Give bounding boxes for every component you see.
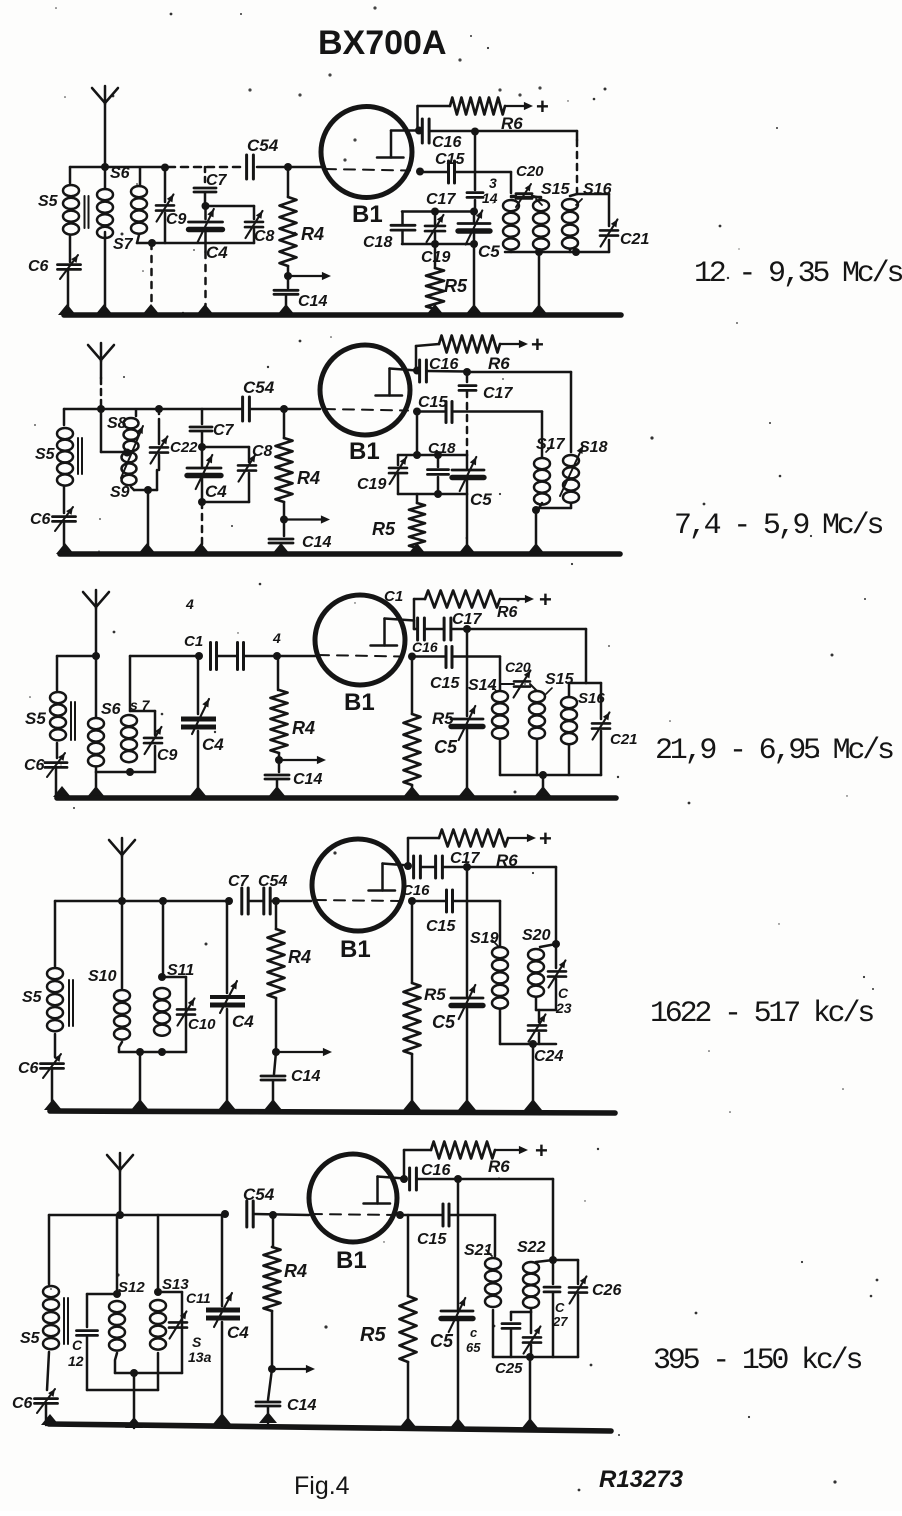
capacitor C16 (section 2) [420,356,459,382]
svg-text:C10: C10 [188,1016,216,1033]
capacitor C9 (section 3) [130,711,178,772]
wire [585,629,588,683]
ground [449,1418,467,1429]
wire [67,270,70,313]
coil S16 [562,181,612,249]
svg-text:S19: S19 [470,930,499,947]
wire [555,867,558,943]
svg-text:C: C [555,1300,565,1315]
svg-text:C7: C7 [206,172,228,189]
ground [408,543,426,554]
junction [413,408,421,416]
label 1622 - 517 kc/s [650,997,873,1031]
wire [101,409,126,452]
wire [427,370,467,373]
wire (plate lead) [385,619,415,630]
wire (to +) [500,595,534,603]
junction [284,163,292,171]
wire (cluster top rail) [398,454,467,457]
capacitor C7 [194,167,228,205]
junction [549,1256,557,1264]
junction [280,516,288,524]
svg-text:R4: R4 [297,468,320,488]
wire [418,106,451,131]
resistor R4 (section 2) [276,409,321,519]
svg-text:C16: C16 [412,639,438,655]
svg-text:C5: C5 [470,490,492,509]
svg-text:C21: C21 [610,731,638,748]
capacitor C14 (section 4) [261,1052,320,1110]
capacitor C15 (section 5) [417,1204,449,1248]
stray mark 4 [185,596,194,612]
capacitor C6 (section 3) [24,753,67,777]
label S13a [188,1334,212,1365]
junction [275,756,283,764]
wire (AVC arrow) [288,272,331,280]
svg-text:C17: C17 [483,385,513,402]
junction [123,449,131,457]
wire [467,372,571,452]
coil S22 [517,1239,553,1308]
junction [431,208,439,216]
capacitor C4 (section 3) [181,656,224,754]
svg-text:C19: C19 [357,476,386,493]
ground [131,1099,149,1110]
svg-text:C54: C54 [243,1185,275,1204]
svg-text:R5: R5 [360,1324,386,1346]
label Fig.4 [294,1472,350,1500]
coil S5 (section 5) [20,1215,59,1390]
junction [434,451,442,459]
antenna (section 1) [92,86,118,167]
wire [139,1052,142,1110]
svg-text:C15: C15 [430,675,460,692]
svg-text:BX700A: BX700A [318,24,447,62]
svg-text:S15: S15 [541,181,571,198]
svg-text:S5: S5 [20,1330,41,1347]
wire [63,522,66,553]
junction [463,863,471,871]
wire [414,901,500,946]
capacitor C10 [177,998,216,1033]
ground [268,786,286,797]
capacitor C54 [247,136,279,179]
coil S7 (section 3) [121,656,155,762]
capacitor C20 [511,163,544,207]
capacitor C21 (section 3) [592,712,638,748]
svg-text:C22: C22 [170,439,198,456]
wire (to +) [500,340,528,348]
capacitor C15 (section 3) [430,647,460,693]
wire [414,657,500,691]
junction [284,272,292,280]
ground [458,786,476,797]
capacitor C8 [245,206,275,245]
wire [466,494,469,552]
wire [577,194,609,226]
svg-text:C24: C24 [534,1048,563,1065]
svg-text:R6: R6 [488,354,510,373]
wire [536,503,571,510]
svg-text:S6: S6 [101,701,121,718]
capacitor C16 (section 3) [412,618,438,655]
wire [51,1069,54,1110]
capacitor C21 [600,219,649,248]
svg-text:R5: R5 [444,276,468,296]
capacitor C27 [544,1260,568,1357]
wire (tank bottom rail) [505,250,609,252]
ground [87,786,105,797]
svg-text:C15: C15 [418,394,448,411]
junction [92,652,100,660]
coil S6 [97,165,130,238]
capacitor C9 [156,168,187,244]
junction [431,240,439,248]
antenna (section 5) [107,1153,133,1215]
svg-text:12: 12 [68,1353,84,1369]
wire [466,391,469,455]
capacitor C14 (section 2) [269,520,331,554]
svg-text:C6: C6 [30,511,51,528]
coil S9 [110,452,137,501]
svg-text:C4: C4 [202,735,224,754]
wire [254,1214,309,1215]
wire [404,1150,431,1179]
capacitor C17 (section 3) [425,611,482,640]
svg-text:C5: C5 [434,737,458,757]
capacitor C16 (section 5) [410,1162,451,1190]
wire [104,232,107,313]
label 21,9 - 6,95 Mc/s [655,734,893,768]
wire (tank bottom rail) [500,1010,556,1044]
capacitor C4 (section 2) [187,447,227,502]
capacitor C11 [169,1290,211,1339]
svg-text:R4: R4 [301,224,324,244]
svg-text:S12: S12 [118,1279,145,1296]
svg-text:C14: C14 [298,293,327,310]
wire (plate lead) [390,369,418,371]
wire [542,775,545,797]
ground [213,1413,231,1424]
junction [101,163,109,171]
junction [572,248,580,256]
wire (to +) [505,102,533,110]
svg-text:R6: R6 [497,604,518,621]
junction [404,862,412,870]
capacitor C19 [421,212,450,267]
svg-text:B1: B1 [336,1247,367,1274]
junction [272,897,280,905]
wire [70,166,166,169]
wire (plate lead) [378,1177,405,1179]
wire [64,408,159,411]
svg-text:R4: R4 [292,718,315,738]
svg-text:S: S [192,1334,202,1350]
junction [413,367,421,375]
junction [113,1290,121,1298]
resistor R6 (section 3) [414,591,518,630]
ground [399,1417,417,1428]
capacitor C20 (section 3) [505,659,531,698]
svg-text:4: 4 [272,630,281,646]
svg-text:C17: C17 [426,191,456,208]
svg-text:C8: C8 [254,228,275,245]
resistor R5 [426,244,468,313]
core (iron core lines) [78,438,82,474]
svg-text:C11: C11 [186,1290,211,1306]
svg-text:S10: S10 [88,968,117,985]
ground bus (section 1) [64,312,621,318]
coil S6 (section 3) [88,656,121,766]
ground [259,1412,277,1423]
svg-text:C14: C14 [291,1068,320,1085]
wire [500,684,537,691]
pin 3 [489,175,497,191]
svg-text:C5: C5 [430,1331,454,1351]
wire [202,446,249,449]
ground [530,304,548,315]
resistor R5 (section 4) [404,901,447,1110]
ground [56,543,74,554]
wire [600,731,603,775]
capacitor C6 (section 5) [12,1389,58,1413]
junction [148,239,156,247]
wire [162,977,186,1052]
svg-text:S16: S16 [583,181,612,198]
ground [527,543,545,554]
wire (AVC arrow) [272,1365,315,1373]
junction [535,248,543,256]
svg-text:27: 27 [552,1314,568,1329]
junction [470,208,478,216]
wire [257,166,321,169]
wire [157,1353,160,1390]
wire [443,866,556,869]
core (iron core lines) [64,1298,68,1344]
svg-text:14: 14 [482,190,498,206]
svg-text:C20: C20 [516,163,544,180]
junction [532,506,540,514]
wire [133,1373,136,1428]
wire [202,501,249,504]
svg-text:C14: C14 [287,1397,316,1414]
junction [161,164,169,172]
title BX700A [318,24,447,62]
svg-text:S5: S5 [22,989,43,1006]
capacitor C19 (section 2) [357,455,407,494]
junction [118,897,126,905]
svg-text:+: + [539,587,552,612]
wire [204,231,207,311]
svg-text:+: + [531,332,544,357]
wire [569,683,586,696]
capacitor C17 (section 4) [421,850,480,878]
wire (tank bottom rail) [500,740,601,775]
svg-text:R4: R4 [284,1261,307,1281]
pin 4 [272,630,281,646]
antenna (section 4) [109,838,135,901]
svg-text:C25: C25 [495,1360,523,1377]
junction [198,443,206,451]
coil S19 [470,930,508,1009]
ground [196,304,214,315]
svg-text:B1: B1 [349,438,380,465]
svg-text:C15: C15 [435,151,465,168]
wire (AVC arrow) [284,515,330,523]
tube B1 (section 1) [321,107,412,229]
capacitor C15 (section 2) [418,394,452,423]
wire [96,768,130,797]
capacitor C7 (section 2) [190,409,235,446]
wire [159,408,241,411]
wire (arrow through S18) [560,446,583,496]
wire [206,205,255,208]
wire (grid dash line in tube) [318,655,403,657]
capacitor C5 (section 2) [452,455,492,509]
svg-text:C4: C4 [232,1012,254,1031]
svg-text:B1: B1 [340,936,371,963]
junction [268,1365,276,1373]
wire [147,490,150,552]
ground [264,1099,282,1110]
ground [403,1099,421,1110]
svg-text:C9: C9 [166,211,187,228]
junction [272,1048,280,1056]
capacitor C18 [363,212,415,252]
svg-text:C4: C4 [205,482,227,501]
junction [434,490,442,498]
capacitor C6 [28,255,81,279]
junction [130,1369,138,1377]
label 12 - 9,35 Mc/s [694,257,902,291]
junction [471,128,479,136]
ground bus (section 4) [50,1111,615,1113]
capacitor C54 (section 5) [243,1185,275,1227]
svg-text:C: C [72,1337,83,1353]
wire [538,252,541,313]
wire [130,655,199,658]
svg-text:Fig.4: Fig.4 [294,1472,350,1500]
svg-text:C5: C5 [432,1012,456,1032]
svg-text:R5: R5 [372,519,396,539]
ground [41,1414,59,1425]
svg-text:+: + [539,826,552,851]
junction [529,1040,537,1048]
svg-text:395 - 150 kc/s: 395 - 150 kc/s [653,1344,861,1378]
ground [465,304,483,315]
svg-text:C14: C14 [293,771,322,788]
wire [158,1292,182,1373]
svg-text:R13273: R13273 [599,1466,684,1493]
capacitor C6 (section 4) [18,1054,64,1078]
ground [192,543,210,554]
ground [277,304,295,315]
coil S5 (section 4) [22,901,63,1057]
wire [244,655,315,658]
capacitor C17 (section 2) [459,372,513,402]
junction [539,771,547,779]
capacitor C4 [189,206,229,262]
svg-text:S20: S20 [522,927,551,944]
coil S5 (section 2) [35,409,73,513]
svg-text:C4: C4 [227,1323,249,1342]
resistor R4 (section 4) [268,901,312,1052]
svg-text:C4: C4 [206,243,228,262]
junction [413,451,421,459]
svg-text:C8: C8 [252,443,273,460]
capacitor C16 (section 4) [402,856,430,899]
label 395 - 150 kc/s [653,1344,861,1378]
capacitor C17 [426,134,483,212]
wire [473,244,476,313]
svg-text:C1: C1 [184,633,203,650]
capacitor C4 (section 4) [210,901,254,1031]
wire (tank bottom rail) [493,1310,578,1357]
junction [408,653,416,661]
capacitor C8 (section 2) [238,443,273,502]
coil S13 [150,1215,189,1350]
capacitor C4 (section 5) [206,1215,249,1342]
label C1 (top) [384,588,403,605]
svg-text:R5: R5 [424,985,446,1004]
wire [416,344,439,371]
capacitor C54 (section 4) [249,873,287,914]
capacitor C25 [495,1312,541,1377]
junction [463,368,471,376]
node + (B+ supply) [539,587,552,612]
ground [138,543,156,554]
ground [95,304,113,315]
ground [534,786,552,797]
wire [271,900,311,903]
wire [150,243,153,311]
svg-text:C: C [558,985,569,1001]
capacitor C65 [466,1312,520,1357]
core (iron core lines) [71,702,75,740]
coil S14 [468,677,508,739]
svg-text:C18: C18 [363,234,392,251]
junction [158,1048,166,1056]
wire [535,510,538,552]
junction [158,973,166,981]
svg-text:C1: C1 [384,588,403,605]
capacitor C15 [435,151,465,183]
tube B1 (section 2) [320,345,410,465]
junction [155,405,163,413]
junction [116,1211,124,1219]
svg-text:S22: S22 [517,1239,546,1256]
svg-text:C6: C6 [18,1060,39,1077]
junction [136,1048,144,1056]
junction [400,1175,408,1183]
ground [458,543,476,554]
wire [408,838,439,866]
svg-text:7,4 - 5,9 Mc/s: 7,4 - 5,9 Mc/s [674,509,882,543]
coil S15 [503,181,571,250]
wire (grid dash line in tube) [325,169,410,171]
wire (arrow through S8/S9) [121,426,143,478]
wire (plate lead) [391,129,419,132]
svg-text:C15: C15 [417,1231,447,1248]
coil S21 [464,1242,501,1307]
svg-text:65: 65 [466,1340,481,1355]
capacitor C23 [548,944,572,1016]
svg-text:S5: S5 [25,709,46,728]
tube B1 (section 3) [315,595,405,716]
wire [55,768,58,797]
svg-text:C15: C15 [426,918,456,935]
svg-text:C6: C6 [28,258,49,275]
